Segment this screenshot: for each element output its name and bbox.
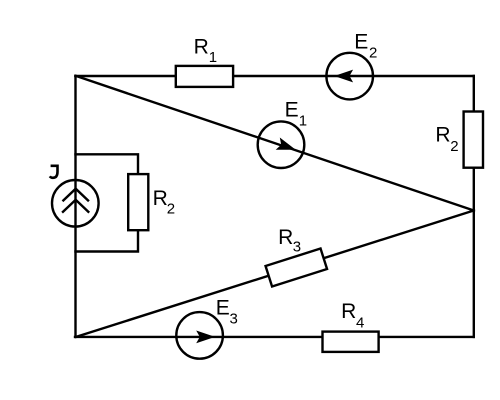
wire top — [76, 75, 474, 77]
svg-text:1: 1 — [209, 49, 217, 66]
svg-text:E: E — [216, 296, 230, 319]
svg-text:3: 3 — [293, 239, 301, 256]
resistor R3 (on lower diagonal) — [266, 226, 328, 286]
wire diagonal top-left to right node — [76, 76, 474, 211]
wire bottom — [75, 336, 474, 338]
svg-text:R: R — [435, 124, 450, 147]
resistor R1 — [176, 36, 233, 87]
voltage source E2 — [326, 31, 377, 100]
svg-text:R: R — [341, 300, 356, 323]
wire left — [74, 76, 76, 337]
resistor R4 — [323, 300, 379, 352]
resistor R2 (right) — [435, 112, 483, 168]
svg-text:R: R — [278, 226, 293, 249]
wire branch bottom of parallel R2 — [76, 229, 139, 252]
wire branch top of parallel R2 — [76, 154, 139, 175]
svg-text:R: R — [153, 187, 168, 210]
wire right — [473, 76, 475, 337]
svg-text:E: E — [285, 99, 299, 122]
voltage source E1 — [258, 99, 307, 168]
svg-text:2: 2 — [167, 201, 175, 218]
svg-text:R: R — [194, 36, 209, 59]
svg-text:2: 2 — [450, 138, 458, 155]
current source J — [50, 166, 99, 227]
wire diagonal bottom-left to right node — [76, 211, 474, 337]
voltage source E3 — [176, 296, 238, 358]
svg-text:2: 2 — [369, 44, 377, 61]
svg-text:E: E — [354, 31, 368, 54]
svg-text:1: 1 — [299, 113, 307, 130]
svg-text:3: 3 — [230, 310, 238, 327]
svg-text:4: 4 — [356, 314, 364, 331]
resistor R2 (parallel with J) — [128, 174, 175, 230]
